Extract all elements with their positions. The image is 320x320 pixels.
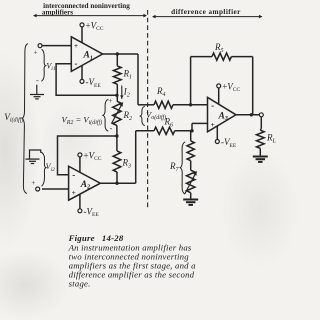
svg-text:+VCC: +VCC — [84, 150, 102, 162]
svg-text:Vi2: Vi2 — [46, 162, 55, 173]
svg-text:Figure 14-28: Figure 14-28 — [68, 233, 124, 243]
svg-text:amplifiers: amplifiers — [42, 9, 73, 17]
svg-text:+VCC: +VCC — [86, 20, 104, 32]
svg-text:Vi1: Vi1 — [46, 62, 55, 73]
svg-text:R7: R7 — [169, 161, 180, 173]
svg-text:-VEE: -VEE — [86, 77, 102, 89]
svg-text:+: + — [31, 179, 35, 187]
svg-text:-VEE: -VEE — [84, 206, 100, 218]
svg-text:VR2 = Vi(diff): VR2 = Vi(diff) — [62, 114, 103, 126]
svg-text:R2: R2 — [123, 110, 133, 122]
svg-text:Vo(diff): Vo(diff) — [146, 109, 166, 121]
svg-text:R1: R1 — [123, 69, 133, 81]
svg-text:+VCC: +VCC — [222, 81, 240, 93]
svg-text:+: + — [34, 49, 38, 57]
svg-text:R5: R5 — [214, 42, 224, 54]
svg-text:A3: A3 — [218, 111, 228, 122]
svg-text:-VEE: -VEE — [221, 137, 237, 149]
svg-text:+: + — [72, 188, 76, 197]
svg-text:+: + — [210, 120, 214, 129]
svg-text:A2: A2 — [80, 180, 90, 191]
svg-text:I2: I2 — [123, 87, 130, 99]
svg-text:RL: RL — [266, 133, 277, 145]
svg-text:-: - — [72, 170, 75, 180]
svg-text:A1: A1 — [83, 51, 93, 62]
svg-text:+: + — [74, 41, 78, 50]
svg-text:-: - — [211, 101, 214, 111]
svg-text:-: - — [75, 58, 78, 68]
svg-text:stage.: stage. — [69, 278, 91, 288]
svg-text:-: - — [36, 76, 39, 85]
svg-text:-: - — [110, 124, 113, 133]
svg-text:+: + — [108, 97, 112, 105]
svg-text:Vi(diff): Vi(diff) — [4, 112, 23, 124]
svg-text:R4: R4 — [156, 86, 166, 98]
svg-text:R3: R3 — [122, 158, 132, 170]
svg-text:difference amplifier: difference amplifier — [171, 7, 241, 16]
